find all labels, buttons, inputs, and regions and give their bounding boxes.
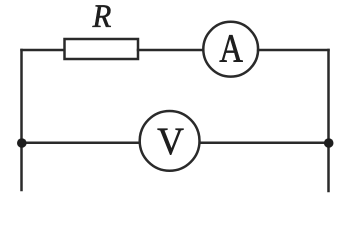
resistor R (65, 39, 139, 59)
node: left junction dot (17, 138, 27, 148)
wire: right vertical branch (327, 50, 330, 191)
label V (voltmeter letter) (158, 129, 184, 155)
label A (ammeter letter) (220, 35, 243, 62)
ammeter A: meter circle (203, 22, 258, 77)
wire: ammeter to top-right corner (258, 49, 328, 52)
wire: resistor to ammeter (138, 49, 203, 52)
label R (resistor value) (92, 5, 110, 27)
wire: left junction to voltmeter (22, 142, 140, 145)
wire: left vertical branch (20, 50, 23, 190)
wire: top-left horizontal from corner to resistor (22, 49, 65, 52)
voltmeter V: meter circle (140, 111, 200, 171)
wire: voltmeter to right junction (201, 142, 329, 145)
node: right junction dot (324, 138, 334, 148)
